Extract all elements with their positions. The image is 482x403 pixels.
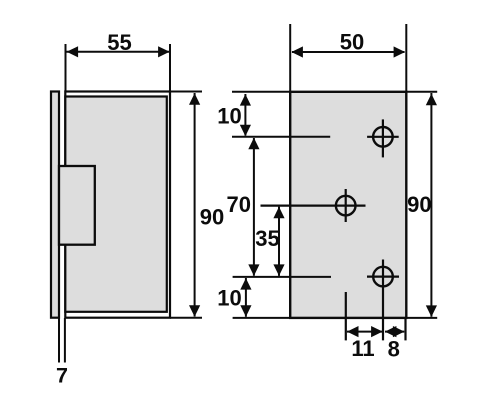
dim 8 arrow left: [385, 326, 397, 337]
svg-text:10: 10: [217, 104, 241, 129]
dim 8 arrow right: [393, 326, 405, 337]
dim 11 arrow right: [371, 326, 383, 337]
dim 50 line: [292, 51, 405, 53]
hole top crosshair vertical: [382, 119, 384, 157]
dim 35 arrow down: [273, 264, 284, 276]
side view: body inner gray block: [65, 97, 167, 312]
svg-text:55: 55: [107, 30, 131, 55]
top edge extension left: [232, 91, 290, 93]
svg-text:70: 70: [227, 192, 251, 217]
dim 11 line: [347, 331, 382, 333]
dim 10 top line: [244, 94, 246, 136]
hole middle circle: [336, 196, 356, 216]
hole top crosshair horizontal: [367, 136, 399, 138]
dim 10 bottom line: [245, 278, 247, 317]
dim 55 line: [67, 51, 170, 53]
dim 55 extension left: [65, 44, 67, 91]
leader line B for 7: [64, 318, 66, 363]
leader line A for 7: [58, 318, 60, 363]
side view: faceplate strip: [51, 92, 59, 318]
svg-text:10: 10: [217, 286, 241, 311]
svg-text:90: 90: [407, 192, 431, 217]
dim 11 arrow left: [347, 326, 359, 337]
dim 70 arrow down: [248, 264, 259, 276]
hole bottom circle: [373, 267, 393, 287]
extension line from middle hole down: [345, 292, 347, 340]
bottom edge extension left: [233, 317, 290, 319]
svg-text:7: 7: [56, 363, 68, 387]
dim 50 extension right: [405, 24, 407, 91]
dim 90 left: bottom extension: [170, 317, 202, 319]
extension line right edge down: [404, 318, 406, 341]
hole middle crosshair vertical: [345, 189, 347, 222]
side view: latch protrusion: [59, 166, 95, 245]
hole line bottom: [233, 276, 331, 278]
hole line top: [232, 136, 330, 138]
front view: plate: [290, 92, 406, 318]
hole bottom crosshair vertical / extension: [382, 260, 384, 341]
dim 50 extension left: [289, 24, 291, 91]
dim 35 arrow up: [273, 207, 284, 219]
svg-text:35: 35: [255, 226, 279, 251]
svg-text:90: 90: [200, 205, 224, 230]
top edge extension right: [406, 91, 437, 93]
svg-text:11: 11: [351, 336, 374, 361]
dim 10 top arrow down: [240, 125, 251, 137]
dim 10 bottom arrow down: [240, 305, 251, 317]
dim 90 right arrow down: [426, 305, 437, 317]
hole line middle: [261, 205, 366, 207]
hole bottom crosshair horizontal: [367, 276, 399, 278]
svg-text:50: 50: [340, 30, 364, 55]
dim 90 left line: [194, 93, 196, 317]
svg-text:8: 8: [388, 337, 400, 362]
dim 55 arrow right: [158, 46, 170, 57]
dim 70 line: [253, 138, 255, 276]
dim 10 top arrow up: [240, 94, 251, 106]
side view: body outer outline: [65, 92, 170, 318]
hole top circle: [373, 127, 393, 147]
dim 8 line: [385, 331, 404, 333]
dim 70 arrow up: [248, 138, 259, 150]
dim 90 left arrow up: [189, 93, 200, 105]
dim 50 arrow left: [291, 46, 303, 57]
dim 90 right line: [430, 93, 432, 317]
dim 55 extension right: [169, 44, 171, 91]
dim 10 bottom arrow up: [240, 278, 251, 290]
dim 35 line: [278, 207, 280, 276]
dim 90 right arrow up: [426, 94, 437, 106]
dim 55 arrow left: [67, 46, 79, 57]
dim 50 arrow right: [394, 46, 406, 57]
dim 90 left arrow down: [189, 305, 200, 317]
bottom edge extension right: [406, 317, 437, 319]
dim 90 left: top extension: [170, 91, 202, 93]
